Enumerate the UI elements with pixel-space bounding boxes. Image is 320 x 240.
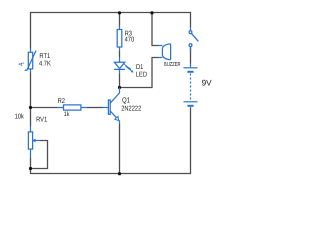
svg-text:LED: LED	[136, 72, 147, 79]
svg-text:Q1: Q1	[122, 96, 130, 105]
svg-text:R2: R2	[58, 98, 65, 105]
svg-text:2N2222: 2N2222	[121, 105, 141, 112]
svg-text:4.7K: 4.7K	[39, 61, 51, 68]
svg-text:t°: t°	[21, 62, 24, 68]
svg-text:BUZZER: BUZZER	[164, 62, 180, 68]
svg-text:1k: 1k	[64, 111, 70, 118]
svg-text:RV1: RV1	[36, 116, 47, 123]
svg-text:D1: D1	[136, 64, 143, 71]
svg-text:RT1: RT1	[39, 53, 50, 60]
svg-text:470: 470	[125, 37, 135, 44]
svg-text:10k: 10k	[15, 113, 25, 121]
svg-text:9V: 9V	[202, 79, 213, 88]
